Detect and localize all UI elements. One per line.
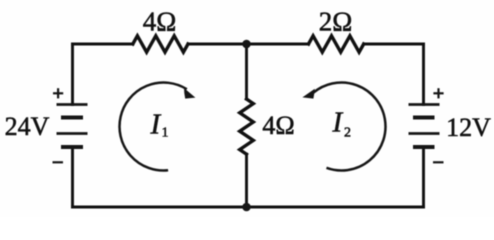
svg-text:I: I: [332, 107, 344, 139]
svg-text:2: 2: [344, 126, 351, 141]
wire right side lower: [422, 147, 425, 207]
wire left side upper: [71, 44, 74, 105]
wire top-left segment: [73, 43, 133, 46]
mesh current arrow I1 (clockwise arc): [120, 83, 196, 171]
node B bottom junction dot: [242, 203, 251, 212]
wire top-right segment: [364, 43, 424, 46]
resistor R1 4ohm top-left zigzag: [133, 36, 188, 52]
svg-text:2Ω: 2Ω: [319, 7, 353, 37]
svg-text:12V: 12V: [446, 113, 491, 142]
minus sign of V2: [433, 161, 444, 163]
battery V1 24V plates: [57, 105, 88, 148]
wire middle branch upper: [245, 44, 248, 99]
plus sign of V2: [433, 88, 443, 98]
resistor R2 2ohm top-right zigzag: [309, 36, 364, 52]
svg-text:4Ω: 4Ω: [143, 7, 177, 37]
plus sign of V1: [53, 88, 63, 98]
wire right side upper: [422, 44, 425, 105]
svg-text:4Ω: 4Ω: [262, 111, 294, 140]
svg-text:24V: 24V: [5, 112, 50, 141]
wire left side lower: [71, 147, 74, 207]
wire top-middle segment: [188, 43, 309, 46]
mesh current arrow I2 (counter-clockwise arc): [302, 83, 385, 171]
node A top junction dot: [242, 40, 251, 49]
svg-text:I: I: [150, 109, 162, 141]
wire middle branch lower: [245, 154, 248, 207]
minus sign of V1: [53, 161, 64, 163]
battery V2 12V plates: [409, 105, 440, 148]
wire bottom: [73, 206, 424, 209]
resistor R3 4ohm middle vertical zigzag: [240, 99, 254, 154]
svg-text:1: 1: [162, 126, 169, 141]
